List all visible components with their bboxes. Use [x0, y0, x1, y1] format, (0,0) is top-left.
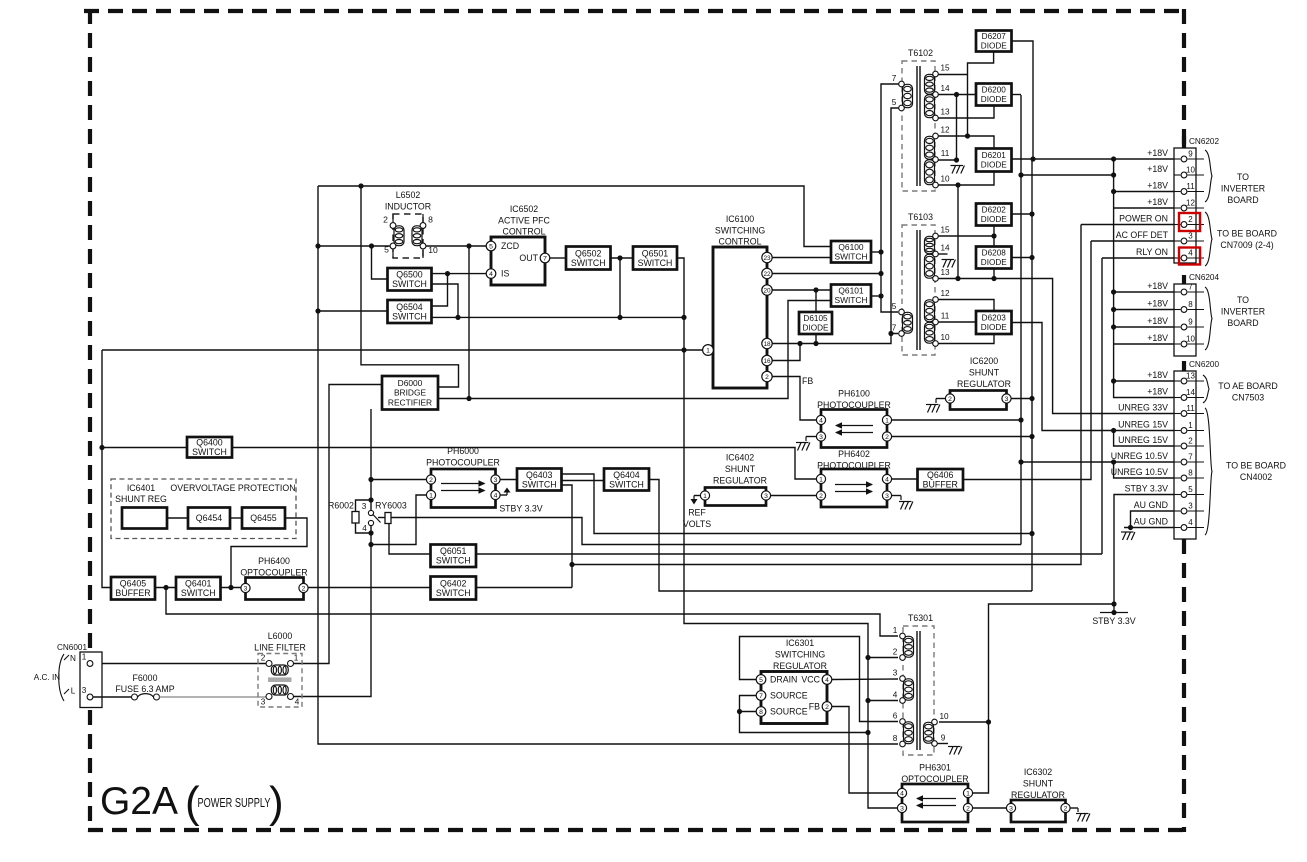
svg-text:T6301: T6301 — [908, 613, 933, 623]
svg-text:SHUNT: SHUNT — [969, 368, 1000, 378]
svg-text:4: 4 — [494, 492, 498, 499]
svg-text:+18V: +18V — [1147, 181, 1168, 191]
svg-text:IC6502: IC6502 — [510, 204, 538, 214]
svg-text:D6200: D6200 — [982, 86, 1007, 95]
wire T6301 pin10 to STBY riser — [939, 721, 989, 723]
svg-text:PH6100: PH6100 — [838, 389, 870, 399]
wire IC6100 pin18 line — [772, 334, 898, 344]
svg-text:BUFFER: BUFFER — [115, 588, 150, 598]
wire D6208 out — [1012, 257, 1033, 259]
svg-text:TO: TO — [1237, 172, 1249, 182]
svg-text:5: 5 — [892, 302, 897, 311]
svg-text:2: 2 — [302, 585, 306, 592]
svg-text:4: 4 — [1188, 518, 1193, 527]
svg-text:Q6100: Q6100 — [838, 242, 863, 252]
svg-text:3: 3 — [1009, 805, 1013, 812]
wire PH6301 pin2 to IC6302 — [973, 807, 1006, 809]
svg-text:PH6402: PH6402 — [838, 449, 870, 459]
wire AC OFF DET into connector — [1091, 240, 1180, 242]
svg-text:4: 4 — [885, 476, 889, 483]
wire R6002 bottom lead — [356, 523, 372, 533]
svg-text:8: 8 — [1188, 469, 1193, 478]
svg-text:2: 2 — [1188, 437, 1193, 446]
svg-text:9: 9 — [1188, 318, 1193, 327]
svg-text:UNREG 33V: UNREG 33V — [1118, 403, 1168, 413]
wire IC6100 pin23 — [772, 257, 831, 259]
wire T6103 pin14 gnd — [937, 253, 948, 255]
svg-text:Q6404: Q6404 — [613, 470, 640, 480]
svg-text:3: 3 — [494, 477, 498, 484]
wire D6105 bottom stub — [815, 334, 817, 344]
svg-text:UNREG 15V: UNREG 15V — [1118, 435, 1168, 445]
wire Q6504 output line — [432, 316, 685, 318]
wire relay net riser x1021 — [1020, 95, 1022, 545]
svg-text:IC6302: IC6302 — [1024, 767, 1052, 777]
wire Q6500 gate drop — [372, 246, 388, 279]
svg-text:CONTROL: CONTROL — [502, 227, 545, 237]
transformer T6102 — [892, 48, 950, 191]
wire T6102 pin10 to D6201 bottom — [937, 172, 994, 186]
svg-text:CN7503: CN7503 — [1232, 393, 1264, 403]
svg-text:IC6200: IC6200 — [970, 356, 998, 366]
wire D6000 bottom to L6000 pin 4 — [370, 409, 372, 513]
wire left vertical x318 to T6301 pin 8 — [318, 186, 898, 744]
svg-text:3: 3 — [261, 698, 266, 707]
svg-text:7: 7 — [543, 255, 547, 262]
svg-text:Q6406: Q6406 — [927, 470, 954, 480]
wire AU GND pin4 — [1124, 527, 1180, 529]
transistor Q6051 — [431, 545, 477, 568]
svg-text:DIODE: DIODE — [981, 258, 1007, 267]
wire IC6100 pin16 — [772, 344, 800, 361]
svg-text:15: 15 — [940, 226, 950, 235]
wire relay coil bottom to Q6051 — [389, 524, 431, 555]
wire T6102 pin15 to D6207 bottom — [937, 74, 968, 76]
svg-text:CN6200: CN6200 — [1189, 360, 1219, 369]
svg-text:OPTOCOUPLER: OPTOCOUPLER — [901, 774, 968, 784]
svg-text:T6103: T6103 — [908, 212, 933, 222]
svg-text:CN7009 (2-4): CN7009 (2-4) — [1220, 240, 1273, 250]
svg-text:SWITCH: SWITCH — [436, 588, 471, 598]
svg-text:14: 14 — [1186, 388, 1195, 397]
svg-text:Q6454: Q6454 — [196, 513, 223, 523]
wire IC6402 pin3 to PH6402 pin2 — [771, 495, 817, 497]
wire D6105 top stub — [815, 290, 817, 312]
wire Q6500-Q6504 link 2 — [432, 284, 459, 317]
svg-text:AC OFF DET: AC OFF DET — [1116, 230, 1169, 240]
svg-text:14: 14 — [940, 244, 950, 253]
inductor L6000 LINE FILTER — [258, 654, 302, 708]
wire fuse to line filter (gray) — [160, 696, 266, 698]
svg-text:4: 4 — [295, 698, 300, 707]
svg-text:3: 3 — [1005, 396, 1009, 403]
wire Q6502 to Q6501 — [611, 257, 634, 259]
wire Q6406 to AC OFF DET riser — [963, 241, 1091, 480]
svg-text:Q6402: Q6402 — [440, 578, 467, 588]
transistor Q6501 — [633, 247, 677, 270]
svg-text:SWITCH: SWITCH — [181, 588, 216, 598]
wire Q6051 to AC OFF DET riser — [476, 553, 1102, 555]
inductor L6502 — [393, 214, 423, 258]
svg-text:A.C. IN: A.C. IN — [34, 673, 60, 682]
wire ZCD line left — [318, 245, 390, 247]
svg-text:2: 2 — [261, 654, 266, 663]
svg-text:F6000: F6000 — [133, 673, 158, 683]
svg-text:REGULATOR: REGULATOR — [1011, 790, 1065, 800]
wire T6102 pin14 to D6200 — [937, 94, 976, 96]
svg-text:2: 2 — [765, 374, 769, 381]
svg-text:8: 8 — [1188, 300, 1193, 309]
svg-text:DIODE: DIODE — [981, 161, 1007, 170]
svg-text:D6201: D6201 — [982, 151, 1007, 160]
svg-text:11: 11 — [941, 149, 950, 158]
svg-text:Q6504: Q6504 — [396, 302, 423, 312]
diode D6200 — [976, 84, 1012, 106]
svg-text:SWITCH: SWITCH — [392, 311, 427, 321]
wire top rail tap to D6000 upper right — [361, 186, 459, 387]
wire T6301 pin1 line — [166, 588, 898, 637]
wire top AC rail — [318, 186, 831, 247]
overvoltage protection group — [111, 479, 296, 539]
svg-text:POWER SUPPLY: POWER SUPPLY — [198, 796, 271, 810]
svg-text:1: 1 — [703, 493, 707, 500]
svg-text:AU GND: AU GND — [1134, 517, 1168, 527]
node REF VOLTS — [694, 495, 700, 497]
svg-text:Q6051: Q6051 — [440, 546, 467, 556]
svg-text:OPTOCOUPLER: OPTOCOUPLER — [240, 568, 307, 578]
svg-text:4: 4 — [825, 677, 829, 684]
wire T6102 lower tap to T6103 pin13 line — [957, 185, 959, 279]
svg-text:10: 10 — [428, 245, 438, 255]
svg-text:D6208: D6208 — [982, 249, 1007, 258]
svg-text:IC6301: IC6301 — [786, 638, 814, 648]
svg-text:4: 4 — [819, 417, 823, 424]
wire UNREG10.5V line — [1021, 461, 1180, 463]
wire PH6400 pin2 to Q6402 — [304, 587, 431, 589]
wire diode bus x1032 — [1031, 159, 1033, 591]
wire +18V feeder to pin 10 — [1021, 174, 1114, 176]
svg-text:DIODE: DIODE — [981, 42, 1007, 51]
svg-text:Q6502: Q6502 — [575, 248, 602, 258]
svg-text:LINE FILTER: LINE FILTER — [254, 643, 306, 653]
wire PH6000 pin2 — [371, 479, 427, 481]
ground PH6100 — [796, 443, 810, 451]
svg-text:3: 3 — [1188, 232, 1193, 241]
svg-text:23: 23 — [763, 255, 771, 262]
ground T6103 pin 14 — [942, 260, 956, 268]
transistor Q6402 — [431, 577, 477, 600]
svg-text:PH6000: PH6000 — [447, 446, 479, 456]
transistor Q6454 — [188, 508, 230, 529]
wire bus line y350 to IC6100 pin 1 — [102, 349, 703, 351]
svg-text:INVERTER: INVERTER — [1221, 184, 1265, 194]
svg-text:Q6500: Q6500 — [396, 270, 423, 280]
wire PH6100 pin4 to IC6100 pin2 FB — [772, 377, 816, 421]
connector CN6200 — [1111, 360, 1220, 539]
svg-text:REGULATOR: REGULATOR — [713, 476, 767, 486]
transistor Q6100 — [831, 241, 871, 263]
svg-text:IC6401: IC6401 — [127, 483, 155, 493]
svg-text:1: 1 — [294, 654, 299, 663]
svg-text:2: 2 — [885, 434, 889, 441]
svg-text:SOURCE: SOURCE — [770, 691, 808, 701]
wire D6000 output to Q6101 — [438, 301, 831, 399]
wire R6002 top lead — [356, 500, 372, 512]
svg-text:DIODE: DIODE — [981, 215, 1007, 224]
svg-text:BOARD: BOARD — [1227, 318, 1258, 328]
svg-text:SWITCH: SWITCH — [522, 479, 557, 489]
svg-text:2: 2 — [825, 704, 829, 711]
svg-text:+18V: +18V — [1147, 299, 1168, 309]
svg-text:4: 4 — [900, 790, 904, 797]
wire Q6400 output to PH6402 pin 1 — [232, 448, 816, 480]
wire SOURCE pins 7 8 — [740, 696, 869, 733]
transistor Q6502 — [566, 247, 611, 270]
wire Q6504 left — [318, 310, 388, 312]
svg-text:SHUNT REG: SHUNT REG — [115, 494, 167, 504]
wire Q6100 output — [871, 251, 881, 253]
svg-text:1: 1 — [966, 790, 970, 797]
svg-text:1: 1 — [893, 626, 898, 635]
fuse F6000 — [93, 696, 132, 698]
svg-text:+18V: +18V — [1147, 197, 1168, 207]
svg-text:SWITCH: SWITCH — [834, 252, 867, 262]
svg-text:12: 12 — [940, 126, 950, 135]
power STBY 3.3V tick at PH6000 pin4 — [501, 494, 508, 496]
diode D6203 — [976, 311, 1012, 334]
wire RLY ON into connector — [1102, 257, 1180, 259]
transistor Q6401 — [176, 577, 221, 600]
svg-text:SWITCH: SWITCH — [834, 295, 867, 305]
svg-text:IC6100: IC6100 — [726, 214, 754, 224]
svg-text:1: 1 — [819, 476, 823, 483]
svg-text:3: 3 — [885, 493, 889, 500]
wire PH6301 pin1 to STBY riser — [973, 604, 1114, 793]
wire T6103 pin15 to D6202 D6208 — [937, 235, 994, 237]
svg-text:SWITCH: SWITCH — [392, 279, 427, 289]
svg-text:11: 11 — [941, 312, 950, 321]
svg-text:REGULATOR: REGULATOR — [957, 379, 1011, 389]
svg-text:4: 4 — [362, 524, 367, 533]
bridge rectifier D6000 — [382, 376, 438, 410]
wire FB to PH6301 pin4 — [832, 707, 897, 794]
svg-text:2: 2 — [1188, 215, 1193, 224]
svg-text:UNREG 10.5V: UNREG 10.5V — [1111, 467, 1168, 477]
wire T6301 pin9 ground stub — [937, 743, 948, 745]
ground T6301 pin 9 — [948, 747, 962, 755]
wire PH6100 pin1 to relay net riser — [892, 419, 1021, 421]
wire T6102 ground rail pins 14 and 11 — [956, 95, 958, 162]
svg-text:8: 8 — [893, 734, 898, 743]
transformer T6103 — [892, 212, 950, 355]
svg-text:9: 9 — [1188, 150, 1193, 159]
diode D6201 — [976, 149, 1012, 172]
wire left rail x102 — [102, 350, 111, 588]
svg-text:ZCD: ZCD — [501, 241, 519, 251]
wire Q6403 upper out to UNREG drop — [562, 474, 1034, 534]
wire Q6404 output down — [649, 480, 1032, 592]
svg-text:+18V: +18V — [1147, 370, 1168, 380]
svg-text:11: 11 — [1186, 182, 1195, 191]
wire D6203 out to UNREG15V — [1012, 323, 1181, 431]
transistor Q6101 — [831, 285, 871, 307]
shunt regulator IC6401 — [122, 508, 167, 529]
svg-text:D6105: D6105 — [803, 314, 828, 323]
svg-text:PH6400: PH6400 — [258, 556, 290, 566]
svg-text:10: 10 — [940, 333, 950, 342]
wire Q6403 to Q6404 — [562, 480, 605, 482]
buffer Q6406 — [918, 469, 964, 490]
svg-text:): ) — [269, 778, 284, 827]
wire +18V CN6200 pin13 — [1114, 380, 1180, 382]
svg-text:Q6455: Q6455 — [250, 513, 277, 523]
wire T6102 pin12 to D6201 top — [937, 136, 994, 149]
svg-text:STBY 3.3V: STBY 3.3V — [1092, 616, 1135, 626]
wire UNREG10.5V pin8 drop — [1114, 462, 1180, 478]
svg-text:1: 1 — [82, 653, 87, 662]
wire Q6101 output — [871, 295, 881, 297]
svg-text:10: 10 — [940, 175, 950, 184]
wire T6301 pin2 — [868, 657, 898, 659]
svg-text:4: 4 — [1188, 249, 1193, 258]
wire RLY ON vertical — [1101, 258, 1103, 554]
svg-text:D6202: D6202 — [982, 206, 1007, 215]
svg-text:2: 2 — [966, 805, 970, 812]
svg-text:5: 5 — [384, 245, 389, 255]
node highlight red box pin 2 — [1179, 213, 1200, 231]
svg-text:IC6402: IC6402 — [726, 453, 754, 463]
wire STBY to CN6200 pin 5 — [1114, 495, 1180, 605]
wire +18V CN6204 pins — [1114, 291, 1180, 293]
svg-text:3: 3 — [764, 493, 768, 500]
wire DRAIN loop to T6301 pin6 — [740, 637, 899, 722]
svg-text:DIODE: DIODE — [981, 323, 1007, 332]
svg-text:1: 1 — [1188, 421, 1193, 430]
svg-text:L6000: L6000 — [268, 631, 293, 641]
svg-text:G2A: G2A — [100, 780, 178, 823]
diode D6105 — [799, 312, 832, 334]
wire T6102 pin7 vertical — [881, 84, 902, 312]
svg-text:13: 13 — [940, 108, 950, 117]
wire AU GND pin3 loop — [1131, 511, 1181, 528]
ground T6102 pin 11 — [951, 166, 965, 174]
svg-text:N: N — [70, 654, 76, 663]
svg-text:RY6003: RY6003 — [375, 501, 407, 511]
svg-text:ACTIVE PFC: ACTIVE PFC — [498, 216, 550, 226]
ground IC6302 — [1076, 814, 1090, 822]
svg-text:13: 13 — [1186, 372, 1195, 381]
svg-text:POWER ON: POWER ON — [1119, 214, 1168, 224]
svg-text:Q6501: Q6501 — [642, 248, 669, 258]
svg-text:SWITCHING: SWITCHING — [775, 650, 825, 660]
svg-text:6: 6 — [893, 712, 898, 721]
wire PH6000 pin3 to Q6403 — [501, 479, 518, 481]
svg-text:CN6001: CN6001 — [57, 643, 87, 652]
svg-text:3: 3 — [1188, 502, 1193, 511]
svg-text:SWITCH: SWITCH — [436, 556, 471, 566]
svg-text:PHOTOCOUPLER: PHOTOCOUPLER — [426, 458, 500, 468]
wire IC6100 pin20 to Q6101 — [772, 289, 831, 291]
connector CN6202 — [1116, 137, 1220, 263]
svg-text:Q6403: Q6403 — [526, 470, 553, 480]
svg-text:1: 1 — [885, 417, 889, 424]
svg-text:D6207: D6207 — [982, 32, 1007, 41]
node highlight red box pin 4 — [1179, 248, 1200, 265]
svg-text:1: 1 — [706, 347, 710, 354]
svg-text:2: 2 — [429, 477, 433, 484]
transistor Q6500 — [388, 268, 432, 291]
svg-text:CONTROL: CONTROL — [718, 237, 761, 247]
svg-text:CN6204: CN6204 — [1189, 273, 1219, 282]
wire D6207 out — [1012, 41, 1034, 159]
node Q6504 line junction — [315, 308, 320, 313]
svg-text:5: 5 — [489, 243, 493, 250]
wire T6103 pin13 to UNREG33V — [937, 279, 1180, 414]
svg-text:22: 22 — [763, 271, 771, 278]
svg-text:16: 16 — [763, 358, 771, 365]
wire T6103 pin10 to D6203 bottom — [937, 334, 994, 344]
svg-text:10: 10 — [939, 712, 949, 721]
wire ZCD line right — [426, 245, 487, 247]
transistor Q6400 — [187, 437, 232, 458]
wire T6103 pin11 to D6203 — [937, 321, 976, 323]
svg-text:13: 13 — [940, 268, 950, 277]
svg-text:PH6301: PH6301 — [919, 763, 951, 773]
connector CN6001 — [80, 652, 102, 708]
svg-text:2: 2 — [383, 215, 388, 225]
transistor Q6504 — [388, 300, 432, 323]
svg-text:UNREG 10.5V: UNREG 10.5V — [1111, 451, 1168, 461]
svg-text:FB: FB — [809, 702, 820, 712]
svg-text:3: 3 — [362, 502, 367, 511]
svg-text:15: 15 — [940, 64, 950, 73]
svg-text:SWITCH: SWITCH — [571, 258, 606, 268]
svg-text:20: 20 — [763, 287, 771, 294]
wire +18V pin11 — [1114, 191, 1180, 193]
wire Q6502 out junction drop — [619, 258, 621, 317]
svg-text:10: 10 — [1186, 166, 1195, 175]
svg-text:5: 5 — [759, 677, 763, 684]
svg-text:VOLTS: VOLTS — [683, 519, 711, 529]
svg-text:DRAIN: DRAIN — [770, 675, 797, 685]
buffer Q6405 — [111, 577, 155, 600]
svg-text:SWITCH: SWITCH — [192, 447, 227, 457]
page border dashed frame — [84, 9, 1185, 13]
svg-text:14: 14 — [940, 84, 950, 93]
svg-text:SHUNT: SHUNT — [1023, 779, 1054, 789]
ground AU GND — [1121, 532, 1135, 540]
svg-text:L6502: L6502 — [396, 190, 421, 200]
wire D6202 out — [1012, 213, 1033, 215]
wire PH6000 pin1 — [371, 495, 427, 545]
svg-text:2: 2 — [893, 648, 898, 657]
wire D6200 out — [1012, 94, 1022, 96]
svg-text:REF: REF — [688, 508, 706, 518]
svg-text:4: 4 — [893, 691, 898, 700]
svg-text:SOURCE: SOURCE — [770, 707, 808, 717]
svg-text:DIODE: DIODE — [981, 95, 1007, 104]
svg-text:D6203: D6203 — [982, 314, 1007, 323]
svg-text:+18V: +18V — [1147, 148, 1168, 158]
wire POWER ON into connector — [1081, 224, 1180, 226]
svg-text:+18V: +18V — [1147, 316, 1168, 326]
svg-text:Q6101: Q6101 — [838, 286, 863, 296]
svg-text:IS: IS — [501, 269, 509, 279]
svg-text:BRIDGE: BRIDGE — [394, 388, 427, 398]
svg-text:7: 7 — [1188, 453, 1193, 462]
svg-text:3: 3 — [893, 669, 898, 678]
wire Q6402 right to riser — [476, 587, 572, 589]
